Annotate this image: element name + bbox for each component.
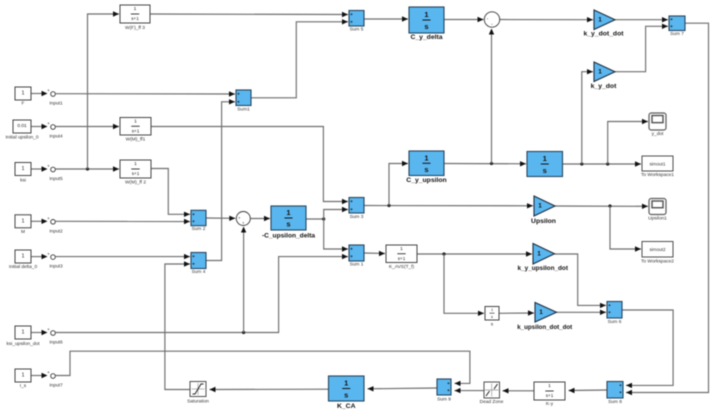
- svg-text:Sum 1: Sum 1: [350, 262, 364, 268]
- svg-text:Input3: Input3: [49, 264, 63, 270]
- svg-text:F: F: [22, 101, 25, 107]
- svg-text:1: 1: [22, 166, 25, 172]
- svg-text:ksi_upsilon_dot: ksi_upsilon_dot: [6, 341, 40, 347]
- svg-text:+: +: [619, 383, 622, 388]
- svg-text:1: 1: [286, 208, 290, 217]
- svg-text:+: +: [192, 262, 195, 267]
- svg-text:k_y_upsilon_dot: k_y_upsilon_dot: [518, 265, 569, 272]
- svg-text:y_dot: y_dot: [652, 131, 664, 137]
- svg-text:1: 1: [344, 379, 348, 388]
- svg-text:Sum1: Sum1: [237, 107, 250, 113]
- svg-text:k_y_dot: k_y_dot: [591, 83, 617, 90]
- svg-text:Input2: Input2: [49, 228, 63, 234]
- svg-text:1: 1: [22, 373, 25, 379]
- svg-text:+: +: [350, 207, 353, 212]
- svg-text:+: +: [670, 24, 673, 29]
- svg-text:+: +: [192, 254, 195, 259]
- svg-text:Input6: Input6: [49, 340, 63, 346]
- svg-text:+: +: [608, 303, 611, 308]
- svg-text:1: 1: [22, 91, 25, 97]
- svg-text:s+1: s+1: [131, 16, 139, 21]
- svg-text:+: +: [237, 92, 240, 97]
- svg-text:W(M)_ff 2: W(M)_ff 2: [125, 180, 146, 186]
- svg-text:1: 1: [22, 330, 25, 336]
- svg-text:1: 1: [539, 309, 543, 316]
- svg-text:K_AVS(T_f): K_AVS(T_f): [389, 264, 415, 270]
- svg-text:+: +: [47, 370, 50, 375]
- svg-text:M: M: [21, 229, 25, 235]
- svg-text:K-y: K-y: [546, 401, 554, 407]
- svg-text:1: 1: [400, 246, 403, 252]
- svg-text:+: +: [47, 88, 50, 93]
- svg-text:+: +: [47, 216, 50, 221]
- svg-text:1: 1: [22, 254, 25, 260]
- svg-text:s: s: [491, 315, 493, 319]
- svg-text:Sum 7: Sum 7: [670, 31, 684, 37]
- svg-text:Sum 2: Sum 2: [192, 226, 206, 232]
- svg-text:s+1: s+1: [398, 256, 406, 261]
- svg-text:s: s: [543, 166, 547, 175]
- svg-text:1: 1: [134, 6, 137, 12]
- svg-text:+: +: [237, 99, 240, 104]
- svg-text:s+1: s+1: [132, 171, 140, 176]
- svg-text:s: s: [286, 220, 290, 229]
- svg-text:W(M)_ff1: W(M)_ff1: [126, 137, 146, 143]
- svg-text:k_y_dot_dot: k_y_dot_dot: [583, 31, 624, 38]
- svg-text:+: +: [350, 19, 353, 24]
- svg-text:C_y_upsilon: C_y_upsilon: [406, 177, 446, 184]
- svg-text:Sum 9: Sum 9: [437, 397, 451, 403]
- svg-text:s+1: s+1: [546, 393, 554, 398]
- svg-text:Sum 5: Sum 5: [350, 27, 364, 33]
- svg-text:simout1: simout1: [649, 161, 666, 166]
- svg-text:s: s: [424, 165, 428, 174]
- svg-text:+: +: [670, 17, 673, 22]
- svg-text:1: 1: [543, 154, 547, 163]
- svg-text:Input4: Input4: [49, 134, 63, 140]
- svg-text:Input5: Input5: [49, 176, 63, 182]
- svg-text:+: +: [47, 327, 50, 332]
- svg-text:1: 1: [548, 383, 551, 389]
- svg-text:+: +: [608, 310, 611, 315]
- svg-text:-C_upsilon_delta: -C_upsilon_delta: [262, 233, 315, 240]
- svg-text:+: +: [47, 251, 50, 256]
- svg-text:1: 1: [537, 250, 541, 257]
- svg-text:+: +: [47, 121, 50, 126]
- svg-text:Initial upsilon_0: Initial upsilon_0: [5, 135, 38, 141]
- svg-text:To Workspace1: To Workspace1: [641, 172, 674, 178]
- svg-text:Sum 8: Sum 8: [608, 399, 622, 405]
- svg-text:1: 1: [424, 10, 428, 19]
- svg-text:1: 1: [424, 153, 428, 162]
- svg-text:+: +: [192, 212, 195, 217]
- svg-text:+: +: [350, 247, 353, 252]
- svg-text:1: 1: [538, 203, 542, 210]
- svg-text:s: s: [491, 323, 494, 328]
- svg-text:s: s: [344, 390, 348, 399]
- svg-text:K_CA: K_CA: [337, 403, 356, 410]
- svg-text:Input7: Input7: [49, 383, 63, 389]
- svg-text:simout2: simout2: [649, 247, 666, 252]
- svg-text:1: 1: [134, 161, 137, 167]
- svg-text:+: +: [47, 164, 50, 169]
- svg-text:+: +: [619, 390, 622, 395]
- svg-text:To Workspace2: To Workspace2: [641, 259, 674, 265]
- svg-text:+: +: [350, 12, 353, 17]
- svg-text:Dead Zone: Dead Zone: [480, 399, 504, 405]
- svg-text:+: +: [350, 199, 353, 204]
- svg-text:k_upsilon_dot_dot: k_upsilon_dot_dot: [517, 324, 572, 331]
- svg-text:+: +: [350, 254, 353, 259]
- svg-text:Upsilon1: Upsilon1: [648, 216, 667, 222]
- svg-text:+: +: [447, 381, 450, 386]
- svg-text:+: +: [447, 388, 450, 393]
- svg-text:ksi: ksi: [20, 178, 26, 184]
- svg-text:s+1: s+1: [132, 128, 140, 133]
- svg-text:s: s: [424, 22, 428, 31]
- svg-text:W(F)_ff 3: W(F)_ff 3: [125, 25, 145, 31]
- svg-text:C_y_delta: C_y_delta: [410, 34, 442, 41]
- svg-text:Upsilon: Upsilon: [531, 218, 556, 225]
- svg-text:Sum 4: Sum 4: [192, 269, 206, 275]
- svg-text:1: 1: [22, 219, 25, 225]
- svg-text:1: 1: [134, 119, 137, 125]
- svg-text:1: 1: [491, 308, 493, 312]
- svg-text:1: 1: [598, 68, 602, 75]
- svg-text:I_s: I_s: [20, 383, 27, 389]
- svg-text:Initial delta_0: Initial delta_0: [9, 264, 38, 270]
- svg-text:0.01: 0.01: [17, 123, 27, 129]
- svg-text:Input1: Input1: [49, 101, 63, 107]
- svg-text:Sum 6: Sum 6: [608, 319, 622, 325]
- svg-text:1: 1: [598, 16, 602, 23]
- svg-text:Sum 3: Sum 3: [350, 214, 364, 220]
- svg-text:Saturation: Saturation: [187, 399, 209, 405]
- svg-text:+: +: [192, 219, 195, 224]
